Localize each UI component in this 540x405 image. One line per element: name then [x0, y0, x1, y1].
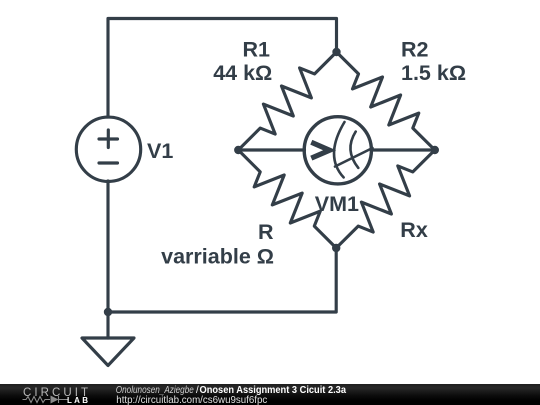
ground symbol [82, 338, 134, 366]
svg-text:http://circuitlab.com/cs6wu9su: http://circuitlab.com/cs6wu9suf6fpc [116, 395, 267, 405]
node top [332, 48, 340, 56]
wire bridge bottom to ground junction [108, 248, 336, 312]
resistor Rx [336, 150, 435, 248]
node right [431, 146, 439, 154]
logo schematic glyph [23, 396, 69, 403]
voltmeter arc 1 [334, 122, 344, 177]
voltmeter needle [335, 148, 373, 167]
node ground junction [104, 308, 112, 316]
svg-text:44 kΩ: 44 kΩ [213, 61, 272, 85]
node bottom [332, 244, 340, 252]
wire left node to voltmeter [238, 148, 304, 151]
wire top rail from V1 to bridge top [108, 19, 337, 118]
voltmeter VM1 circle [304, 117, 371, 184]
resistor R2 [337, 52, 435, 150]
svg-text:R2: R2 [401, 38, 429, 62]
svg-text:V1: V1 [147, 139, 173, 163]
svg-text:LAB: LAB [67, 396, 88, 405]
wire voltmeter to right node [372, 148, 435, 151]
svg-text:R1: R1 [243, 38, 271, 62]
voltmeter chevron [311, 142, 329, 158]
svg-text:VM1: VM1 [315, 192, 359, 216]
wire V1 bottom to ground junction [106, 181, 109, 312]
svg-text:varriable Ω: varriable Ω [161, 245, 274, 269]
wire ground stem [106, 312, 109, 338]
V1 minus sign [99, 161, 118, 164]
svg-text:1.5 kΩ: 1.5 kΩ [401, 61, 466, 85]
V1 plus sign [99, 130, 118, 148]
svg-text:Rx: Rx [400, 218, 428, 242]
resistor R (variable) [238, 150, 336, 248]
voltmeter arc 2 [350, 132, 358, 168]
svg-text:R: R [258, 220, 274, 244]
node left [234, 146, 242, 154]
logo diode triangle [51, 396, 59, 404]
resistor R1 [238, 52, 336, 150]
voltage source V1 circle [76, 117, 140, 181]
